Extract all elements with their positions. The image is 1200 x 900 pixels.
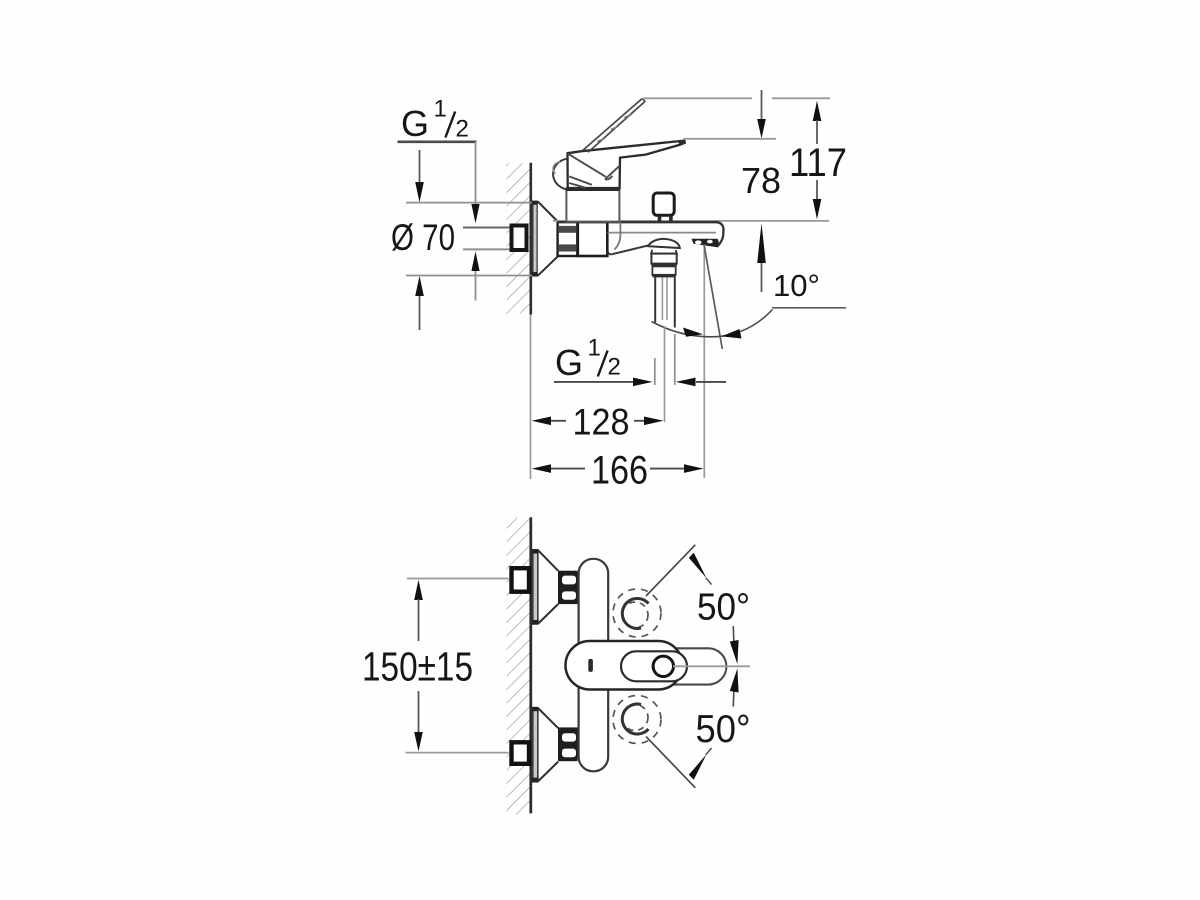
spout stadium (front view) [600,648,726,684]
svg-text:166: 166 [591,449,648,493]
svg-text:78: 78 [741,160,781,201]
svg-text:128: 128 [573,402,630,443]
supply pipe lower line [463,248,510,250]
centre line (front view) [673,665,750,667]
handle end cap arc [553,159,567,190]
faucet body capsule (front view) [579,559,609,772]
check valve housing [578,222,608,256]
svg-text:1: 1 [434,96,447,123]
shower outlet neck [651,250,676,254]
datum line B at rest lever tip [684,138,777,140]
dimension Ø70 top extension line [406,202,532,204]
G 1/2 vertical leader with arrows at inlet square [475,142,477,206]
collar top dark band [566,188,620,191]
dimension Ø70 bottom extension line [406,275,535,277]
dashed handle position upper (50° up) [613,589,661,637]
svg-text:117: 117 [789,141,847,185]
150±15 dimension line upper part with arrow [414,580,423,600]
hose inner line 2 [666,277,668,320]
150±15 top extension line [407,578,509,580]
dimension Ø70 upper arrow [419,150,421,184]
10° angle arc [652,310,773,337]
10° vertical reference line at spout outlet [703,244,705,478]
escutcheon cone lower slant lines [538,708,558,728]
raised lever outline line 2 [588,101,645,152]
50° lower arc arrowhead at line [689,754,707,780]
wall union square upper (front view) [512,568,530,592]
hose extension line right [674,334,676,385]
diverter knob foot right [669,216,673,221]
reference line at spout top (117/78 datum, gray) [553,220,829,222]
50° lower arc arrow at centreline [730,668,739,692]
handle cap small arc [553,162,560,174]
shower outlet dome [648,239,680,248]
escutcheon strip lower (front view) [533,708,538,782]
150±15 dimension line lower part with arrow [418,691,420,733]
connector band 2 [652,275,675,278]
50° upper arc arrowhead at line [689,553,707,579]
handle logo tick [588,659,593,672]
lever blade tip dark wedge [678,141,685,145]
hose inner line 1 [661,277,663,320]
raised lever outline line 1 [583,99,642,151]
svg-text:50°: 50° [697,587,750,629]
150±15 bottom extension line [406,752,509,754]
dimension 117 upper arrow [813,101,822,121]
shower hose tube left edge [654,277,656,322]
lever inner diagonal 2 [569,176,592,184]
escutcheon strip upper (front view) [533,550,538,624]
faucet body top edge [558,222,724,247]
raised lever hatch tick 1 [598,139,605,142]
dimension 117 lower arrow [816,180,818,200]
50° upper dimension arc [732,626,735,641]
raised lever tip cap [642,99,645,102]
shower connector cylinder [651,254,676,264]
svg-text:2: 2 [456,116,469,143]
svg-text:G: G [401,103,429,144]
svg-text:Ø 70: Ø 70 [391,217,455,258]
hose centre extension line [664,326,666,422]
aerator opening 2 [707,240,713,244]
dimension Ø70 lower arrow [419,294,421,330]
connector band 1 [651,264,676,267]
svg-text:1: 1 [588,335,601,362]
dimension 78 lower arrow [761,262,763,292]
svg-text:50°: 50° [696,708,751,751]
union nut upper (front view) [558,571,578,604]
leader line under G 1/2 [398,141,477,144]
svg-text:G: G [555,342,583,383]
10° slanted spray line [704,244,722,349]
wall union square lower (front view) [512,742,530,764]
hose extension line left [654,358,656,385]
union nut lower (front view) [558,727,578,761]
escutcheon cone upper slant lines [538,551,558,571]
handle top face rounded rect [621,651,687,681]
svg-text:150±15: 150±15 [362,644,473,690]
temperature indicator circle [653,656,673,676]
raised lever hatch tick 2 [611,127,618,130]
datum line A at raised lever top [643,97,752,99]
lever handle stadium (front view) [566,641,683,690]
dimension 78 upper arrow [761,90,763,120]
spout aerator (dark) [692,239,719,247]
svg-text:10°: 10° [773,268,820,303]
union nut facet bands [559,226,576,233]
body back profile curve [615,222,621,250]
50° upper position line [646,545,695,596]
50° lower dimension arc [732,692,735,707]
lever neck diagonal with hook [568,153,620,179]
lever inner diagonal 3 [569,183,586,188]
10° arc arrow pointing right at vertical line [683,328,703,337]
50° upper arc arrow at centreline [730,640,739,664]
escutcheon base strip (top view) [533,201,538,275]
wall hatching (front view) [507,518,531,815]
supply pipe upper line [463,227,510,229]
cartridge collar [566,189,619,222]
spout inner top line [608,232,717,234]
shower hose tube right edge [674,277,676,327]
handle pivot block and lever blade (rest position) [568,141,685,188]
raised lever hatch tick 3 [625,115,632,118]
body underside line [608,245,649,254]
svg-text:2: 2 [608,354,621,381]
union nut (top view) [558,222,578,256]
wall extension line down to 166 dim [530,315,532,480]
wall surface line (front view) [529,517,532,813]
wall surface line (top view) [529,163,532,315]
G 1/2 lower dimension line with arrows [554,381,634,383]
dashed handle position lower (50° down) [613,696,661,744]
50° lower position line [646,737,695,788]
aerator opening 1 [695,240,702,244]
escutcheon cone (top view) [538,202,558,276]
diverter knob foot left [658,216,662,221]
diverter knob [653,193,674,215]
dimension 128 line with arrows [532,417,551,426]
10° arc arrow pointing left at slanted line [722,329,742,339]
wall hatching (top view) [507,164,531,314]
10° leader line [772,307,846,309]
connector mid section [652,266,675,274]
wall union square nipple (top view) [512,226,527,251]
dimension 166 line with arrows [532,464,551,473]
